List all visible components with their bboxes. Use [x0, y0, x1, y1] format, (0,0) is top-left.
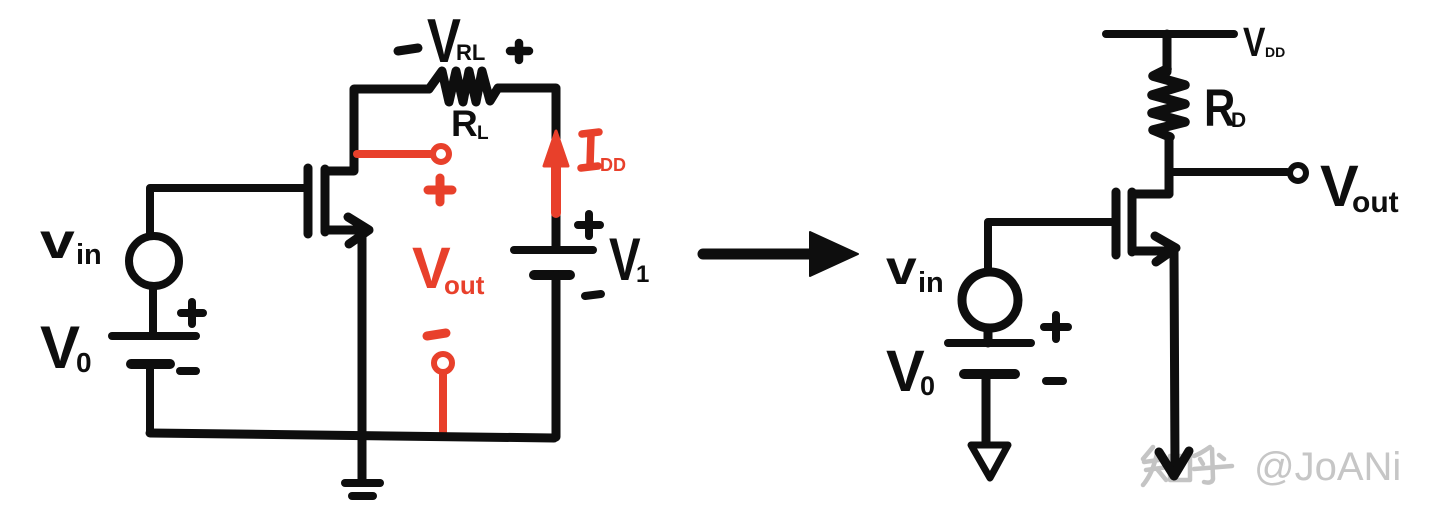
svg-text:out: out — [1352, 186, 1399, 219]
resistor RD — [1152, 69, 1185, 137]
red plus label — [428, 178, 452, 202]
svg-text:in: in — [76, 239, 102, 271]
MOSFET M2 source terminal arrow head — [1159, 451, 1189, 476]
svg-text:v: v — [886, 240, 917, 294]
red terminal circle (bottom) — [434, 354, 452, 372]
label plus (right of V_RL) — [510, 43, 529, 60]
svg-text:L: L — [477, 123, 489, 144]
red stub wire to bottom rail — [439, 374, 447, 436]
battery V0 short plate (left) — [131, 359, 170, 369]
big arrow head — [810, 232, 858, 276]
label minus (left of V_RL) — [398, 48, 418, 51]
svg-text:v: v — [40, 213, 75, 269]
red current arrow IDD head — [544, 131, 568, 166]
red terminal circle (top) — [433, 146, 449, 162]
MOSFET M2 drain wire — [1132, 190, 1169, 199]
wire below battery V0 to bottom rail — [146, 364, 154, 433]
MOSFET M2 gate wire — [988, 222, 1112, 271]
ground open arrow (right vin branch) — [971, 445, 1008, 478]
source circle vin (right) — [962, 272, 1018, 328]
MOSFET M2 channel bar — [1128, 192, 1137, 252]
svg-text:DD: DD — [600, 155, 626, 175]
MOSFET M2 gate bar — [1112, 192, 1121, 255]
source circle vin (left) — [129, 236, 179, 286]
svg-text:RL: RL — [456, 40, 485, 65]
big arrow between circuits — [703, 249, 812, 260]
resistor RL — [429, 71, 498, 102]
minus label V0 (left) — [180, 367, 196, 375]
battery V1 long plate — [514, 246, 593, 254]
plus label V0 (right) — [1044, 315, 1068, 339]
svg-text:out: out — [444, 270, 485, 300]
svg-text:0: 0 — [76, 347, 92, 378]
wire VDD to resistor RD — [1163, 34, 1172, 72]
MOSFET M1 channel bar — [321, 169, 330, 232]
MOSFET M2 source arrow — [1155, 236, 1176, 262]
output wire to Vout terminal — [1169, 168, 1287, 176]
svg-text:@JoANi: @JoANi — [1254, 445, 1401, 489]
red label I_DD — [581, 132, 599, 168]
wire resistor RD to drain node — [1165, 137, 1174, 194]
battery V0 short plate (right) — [964, 369, 1015, 379]
bottom rail wire — [150, 433, 554, 438]
battery V0 long plate (left) — [112, 332, 196, 340]
svg-text:DD: DD — [1265, 44, 1285, 60]
battery V1 short plate — [534, 270, 570, 280]
MOSFET M1 source wire with corner down to ground — [325, 230, 362, 481]
plus label V0 (left) — [181, 302, 203, 324]
svg-text:D: D — [1231, 109, 1246, 132]
watermark zhihu character hu — [1194, 447, 1232, 483]
MOSFET M1 source arrow — [348, 217, 369, 244]
svg-text:0: 0 — [920, 371, 935, 401]
svg-text:V: V — [1243, 19, 1265, 65]
minus label below V1 — [585, 294, 601, 296]
svg-text:V: V — [40, 314, 80, 381]
svg-text:R: R — [451, 103, 478, 144]
red minus label — [427, 333, 446, 336]
wire below battery V0 to ground arrow (right) — [982, 374, 991, 447]
VDD rail bar — [1106, 30, 1234, 38]
minus label V0 (right) — [1046, 377, 1063, 385]
watermark zhihu character zhi — [1143, 447, 1190, 485]
MOSFET M2 source wire down — [1132, 251, 1175, 466]
stub circle to battery V0 — [149, 286, 157, 334]
output terminal circle — [1290, 165, 1306, 181]
red tap wire from drain — [357, 150, 432, 158]
battery V0 long plate (right) — [948, 339, 1031, 347]
wire left loop top (drain to resistor, top-left corner) — [325, 89, 429, 171]
MOSFET M1 gate bar — [304, 168, 313, 234]
wire resistor to right corner — [498, 88, 556, 247]
red current arrow IDD shaft — [551, 160, 561, 213]
stub circle to battery V0 (right) — [984, 328, 993, 343]
svg-text:1: 1 — [636, 261, 649, 288]
MOSFET M1 gate wire — [150, 188, 304, 236]
ground symbol — [345, 483, 380, 496]
plus label above battery V1 — [578, 214, 600, 236]
wire below battery V1 to bottom rail — [554, 275, 556, 437]
svg-text:in: in — [918, 267, 944, 299]
